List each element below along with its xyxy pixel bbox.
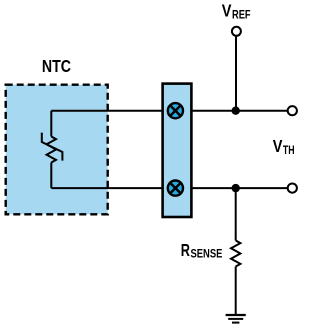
resistor RSENSE zigzag: [231, 241, 240, 267]
svg-text:V: V: [273, 136, 283, 156]
svg-text:R: R: [181, 240, 190, 260]
wire: bottom horizontal from block to right terminal: [192, 187, 290, 189]
thermistor diagonal strike: [42, 133, 63, 161]
feedthrough terminal X1 (circled X, top): [168, 103, 183, 118]
wire: bottom horizontal from thermistor to block: [51, 187, 162, 189]
label VREF: [222, 0, 251, 21]
junction node top: [232, 107, 240, 115]
ground symbol: [226, 315, 246, 323]
svg-text:REF: REF: [232, 9, 251, 22]
svg-text:V: V: [222, 0, 232, 20]
feedthrough terminal X2 (circled X, bottom): [168, 181, 183, 196]
wire: VREF vertical: [235, 36, 237, 111]
VREF terminal circle: [232, 27, 241, 36]
thermistor RT zigzag: [47, 137, 56, 163]
wire: thermistor bottom lead: [50, 163, 52, 189]
terminal circle top right: [288, 106, 297, 115]
wire: top horizontal from block to right terminal: [192, 110, 290, 112]
terminal circle bottom right: [288, 184, 297, 193]
svg-text:TH: TH: [283, 144, 295, 157]
wire: junction down to RSENSE: [235, 188, 237, 240]
wire: top horizontal from thermistor to block: [51, 110, 162, 112]
label VTH: [273, 136, 295, 157]
wire: RSENSE to ground: [235, 267, 237, 315]
junction node bottom: [232, 184, 240, 192]
terminal block rectangle: [163, 84, 192, 217]
wire: thermistor top lead: [50, 111, 52, 137]
svg-text:SENSE: SENSE: [191, 248, 223, 261]
NTC dashed enclosure box: [6, 85, 108, 215]
svg-text:NTC: NTC: [42, 56, 71, 76]
label RSENSE: [181, 240, 223, 261]
